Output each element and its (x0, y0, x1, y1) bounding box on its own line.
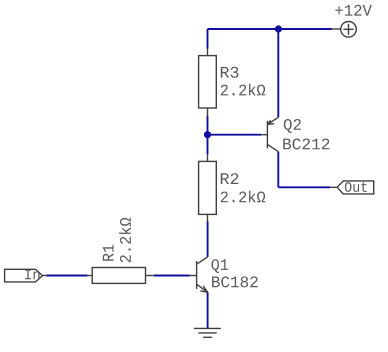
wire to Out (278, 186, 330, 188)
wire top rail (208, 28, 332, 30)
wire node to Q2 base (208, 134, 262, 136)
wire Q2 emitter to rail (277, 29, 279, 117)
resistor R1 (87, 268, 153, 284)
label R3 value 2.2k (221, 84, 265, 96)
transistor Q2 (261, 117, 278, 151)
node dot at R3/R2/Q2 base (204, 131, 211, 138)
label R2 value 2.2k (221, 191, 265, 203)
wire In to R1 (46, 275, 87, 277)
wire R3 bottom to node (207, 116, 209, 155)
label Q2 (284, 119, 301, 133)
label Q1 value BC182 (212, 276, 258, 287)
wire R2 bottom to Q1 collector (207, 222, 209, 257)
connector In (5, 269, 47, 282)
connector Out (330, 181, 374, 194)
label Q2 value BC212 (283, 139, 329, 150)
label R2 (221, 173, 239, 184)
junction dot at top rail (275, 25, 282, 32)
label R1 (rotated) (103, 245, 114, 261)
label Out (345, 182, 367, 192)
label In (25, 270, 39, 280)
label Q1 (212, 259, 229, 273)
resistor R2 (199, 154, 217, 221)
label R3 (221, 67, 239, 78)
wire Q1 emitter to ground (207, 292, 209, 328)
wire R1 to Q1 base (154, 275, 190, 277)
wire Q2 collector down (277, 152, 279, 188)
wire R3 top (207, 29, 209, 49)
power symbol +12V (332, 22, 357, 38)
ground (194, 328, 221, 337)
label R1 value 2.2k (rotated) (119, 218, 131, 263)
transistor Q1 (190, 257, 208, 292)
label +12V (335, 5, 372, 16)
resistor R3 (199, 49, 217, 116)
